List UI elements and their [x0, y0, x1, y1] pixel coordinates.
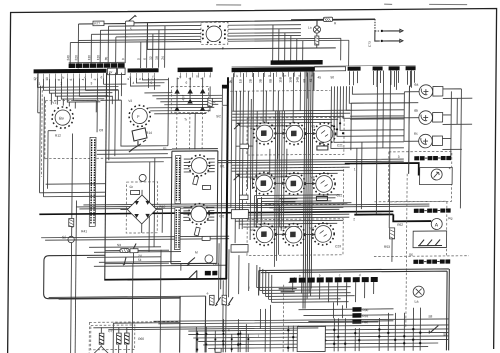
wire horiz runs upper-mid [39, 184, 105, 197]
motor switch arrow v1 [215, 297, 221, 306]
small resistors right of tubes [193, 176, 199, 185]
svg-text:3: 3 [200, 77, 204, 79]
wire drops mid [141, 26, 165, 68]
svg-text:2: 2 [353, 217, 355, 221]
resistor vertical mid [208, 98, 213, 106]
thick wire y279 [104, 279, 227, 280]
svg-text:f: f [153, 75, 154, 79]
tube V9 [206, 26, 222, 42]
svg-text:1: 1 [38, 82, 40, 86]
tube M5 [283, 173, 305, 195]
svg-text:Bv: Bv [59, 116, 64, 121]
svg-text:12: 12 [149, 56, 153, 60]
bridge diodes [134, 201, 150, 218]
svg-text:C22: C22 [336, 193, 342, 197]
transformer T left small [132, 128, 147, 146]
svg-text:10: 10 [45, 77, 49, 81]
wire long horizontals mid [76, 202, 429, 209]
switch bottom right [429, 325, 438, 333]
svg-text:V1: V1 [52, 101, 56, 105]
svg-text:Rg: Rg [448, 216, 452, 220]
wire second vertical [75, 200, 76, 353]
wire bundle horiz above row1 [232, 110, 350, 126]
junction dots [222, 328, 422, 350]
svg-text:V7: V7 [281, 175, 285, 179]
svg-text:La: La [308, 26, 312, 30]
bridge dashed box [126, 182, 157, 233]
svg-text:15B: 15B [278, 77, 282, 83]
bar under-labels [37, 74, 313, 80]
switch S5 box [125, 21, 134, 26]
svg-text:14B: 14B [295, 77, 299, 83]
cap boxes left row1 [240, 144, 249, 149]
motor switch arrow v2 [228, 297, 234, 306]
svg-text:d: d [101, 75, 103, 79]
svg-text:5k: 5k [138, 258, 142, 262]
terminal bar lower 3 [178, 67, 213, 72]
svg-text:R40: R40 [159, 205, 165, 209]
chained terminal row 3 [413, 259, 450, 264]
wire vertical x134 [132, 253, 134, 264]
svg-text:C73: C73 [368, 41, 372, 47]
wire run y263 [105, 262, 169, 265]
svg-text:4: 4 [81, 78, 85, 80]
svg-text:2: 2 [93, 78, 97, 80]
stubs under blocks [349, 71, 414, 88]
jack 2 [419, 111, 433, 125]
motor resistor v1 [210, 295, 215, 305]
terminal bar lower 2 [128, 68, 159, 72]
svg-text:6: 6 [185, 81, 187, 85]
svg-text:S9: S9 [443, 332, 447, 336]
svg-text:m: m [269, 74, 272, 78]
wire long pair y161 [218, 159, 404, 163]
wire right verticals [376, 70, 412, 262]
wire nest to tube B from bars [130, 78, 168, 90]
svg-text:6b: 6b [414, 109, 418, 113]
svg-text:Si2: Si2 [216, 114, 221, 118]
big tube 1 pin wires [184, 159, 215, 172]
wires jacks to tubes [350, 92, 404, 142]
chained terminal row 2 [414, 208, 451, 213]
svg-text:V2: V2 [128, 99, 132, 103]
rotary switch S2 [129, 140, 146, 152]
svg-text:V8: V8 [311, 176, 315, 180]
top-left wire labels [66, 54, 165, 60]
svg-text:b: b [63, 76, 65, 80]
svg-text:6: 6 [143, 58, 147, 60]
resistor bl 2 [117, 333, 122, 344]
arrows tube7-8 [274, 233, 315, 236]
wire lamp-resistor [147, 19, 375, 49]
svg-text:6B: 6B [302, 79, 306, 83]
svg-text:19B: 19B [288, 77, 292, 83]
tube B pin ring [129, 105, 150, 126]
switch on 279 [189, 270, 197, 278]
svg-text:50: 50 [330, 75, 334, 79]
vertical bundle x275 [274, 111, 284, 267]
pot under row1 [317, 143, 328, 150]
svg-text:d: d [359, 273, 361, 277]
big tube 1 pin ring [189, 155, 210, 176]
nested corners to jacks [331, 86, 419, 149]
wire mid horizontals y150-162 [97, 150, 172, 163]
svg-text:Gl2: Gl2 [219, 214, 224, 218]
svg-text:Gr: Gr [130, 185, 135, 189]
svg-text:V11: V11 [309, 227, 315, 231]
jack 2 rect [433, 112, 443, 122]
svg-text:18: 18 [155, 56, 159, 60]
svg-text:f: f [249, 286, 250, 290]
lever on y263 [123, 258, 126, 266]
label strip vertical (rotated text block) [89, 137, 96, 226]
wire bundle above row2 [232, 164, 350, 177]
jack 3 [419, 134, 433, 148]
svg-text:V10: V10 [280, 226, 286, 230]
label strip vertical power 2 [175, 208, 181, 250]
svg-text:R: R [334, 21, 337, 25]
label box right of bus 1 [231, 210, 248, 219]
big tube 1 [191, 158, 207, 174]
svg-text:R14: R14 [146, 131, 152, 135]
svg-text:R30: R30 [362, 308, 368, 312]
switch arrow bottom power [187, 257, 195, 265]
wire mid verticals down [132, 250, 181, 353]
grid verticals [196, 308, 420, 353]
svg-text:Si: Si [62, 235, 66, 240]
meter circle top of bridge [139, 174, 146, 181]
terminal strip outline white [315, 67, 346, 71]
tube M1 [253, 122, 275, 144]
wire nest under chained row [292, 282, 373, 319]
dashed box row3 [247, 219, 343, 256]
svg-text:R32: R32 [362, 320, 368, 324]
terminal bar upper A [69, 63, 125, 68]
bottom-left dashed box [89, 322, 179, 353]
resistor above bridge [131, 190, 140, 194]
dashed box meter [388, 151, 451, 202]
tube M6 [313, 173, 335, 195]
resistor bl 3 [125, 333, 130, 344]
dashed box row1 [247, 117, 344, 155]
svg-text:La: La [415, 300, 419, 304]
wire diode tops [177, 77, 203, 149]
wire meter step [393, 214, 431, 221]
dashed horiz right [374, 201, 469, 256]
junction dots nest [333, 122, 344, 134]
terminal block a [348, 67, 361, 71]
jack 3 wires [404, 98, 462, 149]
svg-text:4: 4 [449, 166, 451, 170]
resistor R79 [323, 17, 332, 21]
big tube 2 pin ring [188, 203, 209, 224]
svg-text:40V: 40V [181, 94, 185, 101]
svg-text:R60: R60 [138, 337, 144, 341]
wire nest right of tube B to power [144, 92, 226, 114]
motor cap circle [205, 255, 213, 263]
svg-text:24: 24 [161, 56, 165, 60]
diode drop dashed wires [177, 112, 203, 149]
jack 3 rect [432, 136, 442, 146]
tube V9 pins [202, 25, 226, 43]
svg-text:R31: R31 [362, 314, 368, 318]
pot under row2 [279, 196, 327, 201]
tube A [55, 110, 70, 125]
label strip vertical power 1 [175, 156, 181, 204]
svg-text:R41: R41 [81, 229, 87, 233]
svg-text:e: e [207, 291, 209, 295]
wire nest from bar1 to tube area [37, 78, 118, 102]
svg-text:8B: 8B [268, 79, 272, 83]
nest horizontals to resistor stack [257, 264, 355, 302]
terminal block c [389, 66, 400, 70]
svg-text:V9: V9 [250, 228, 254, 232]
junction verticals left cluster [197, 319, 248, 352]
dashed vertical x41.8 [40, 86, 43, 177]
motor resistor v2 [222, 295, 227, 305]
stacked resistor boxes right [352, 307, 361, 312]
resistor R small h [120, 249, 129, 253]
svg-text:S3: S3 [117, 243, 121, 247]
svg-text:0: 0 [121, 58, 125, 60]
wire resistor drop [71, 134, 73, 353]
wire drops deep left [73, 78, 103, 132]
tube M3 [313, 123, 335, 145]
wire verticals x150-155 [149, 158, 155, 252]
svg-text:a: a [126, 78, 130, 80]
arrow tube1-tube2 [274, 132, 316, 135]
wire verticals extra mid [235, 91, 287, 243]
dashed verticals right [406, 173, 447, 327]
svg-text:b: b [138, 78, 142, 80]
bar4 labels [228, 77, 313, 83]
wire bundle horizontals [70, 25, 201, 42]
svg-text:V6: V6 [250, 177, 254, 181]
svg-text:1: 1 [354, 167, 356, 171]
wire drops left staircase [70, 24, 125, 69]
wire nest bar1 to tube B [73, 84, 126, 112]
fuse circle Si [68, 236, 74, 242]
svg-text:0: 0 [137, 58, 141, 60]
bridge diamond [127, 195, 156, 224]
svg-text:n: n [285, 74, 287, 78]
arrow into row2 [234, 174, 240, 180]
svg-text:4B: 4B [309, 79, 313, 83]
svg-text:240: 240 [66, 55, 70, 61]
bottom-left resistor dashed box [91, 325, 135, 350]
jack 1 wires [403, 89, 472, 209]
svg-text:9k: 9k [228, 79, 232, 83]
svg-text:R77: R77 [94, 22, 100, 26]
wire left mesh mid [37, 86, 56, 197]
resistor bl 1 [99, 333, 104, 344]
svg-text:S1: S1 [163, 147, 167, 151]
svg-text:S6: S6 [409, 253, 413, 257]
svg-text:C23: C23 [335, 244, 341, 248]
wire nest between row2 and row3 [254, 195, 347, 227]
svg-text:Gl1: Gl1 [220, 164, 225, 168]
fuse box [222, 85, 229, 89]
svg-text:2: 2 [60, 82, 62, 86]
jack 1 rect [433, 86, 443, 96]
dashed box row2 [246, 167, 343, 205]
tube row2 [253, 172, 335, 196]
bar B separators [278, 60, 313, 65]
tube row1 [253, 122, 335, 146]
chained black row long [290, 277, 378, 283]
svg-text:1B: 1B [238, 79, 242, 83]
wire run y250 [105, 249, 169, 252]
dashed horizontal y92 [230, 89, 330, 92]
bus companion lines [221, 77, 232, 289]
wire horizontals at 236 [41, 236, 229, 240]
selenium diode row 2 [174, 98, 205, 111]
dashdot vertical x285 [282, 285, 285, 352]
chained terminal row 1 [414, 156, 451, 161]
wire horizontals y247-266 [87, 246, 227, 266]
bar1 tick labels [33, 76, 204, 81]
svg-text:a: a [299, 274, 301, 278]
svg-text:45: 45 [317, 75, 321, 79]
resistor vertical R80 [315, 36, 319, 45]
rectifier dashed box [171, 86, 208, 112]
lamp circle bottom [413, 286, 424, 297]
scattered tiny labels [36, 78, 454, 341]
tube A dashed box [45, 100, 113, 159]
svg-text:2B: 2B [248, 79, 252, 83]
bar1 end label cells [108, 68, 117, 75]
box top bottom-left [113, 323, 179, 353]
capacitor stub 2 [375, 31, 380, 41]
wire vertical main x106 [105, 73, 107, 280]
svg-text:5: 5 [150, 81, 152, 85]
verticals right of nest [356, 142, 362, 214]
svg-text:V5: V5 [311, 125, 315, 129]
wire verticals under bar4 [232, 73, 314, 230]
jack 2 wires [404, 91, 473, 159]
meter circle [431, 169, 442, 180]
nested corners left into box [218, 243, 271, 337]
svg-text:85: 85 [104, 56, 108, 60]
svg-text:C21: C21 [337, 143, 343, 147]
grid horizontals [188, 329, 448, 349]
tube A pin ring [52, 107, 73, 128]
bar row top hairline [232, 65, 416, 67]
resistor R left vertical [69, 218, 74, 226]
terminal block d [406, 66, 416, 70]
svg-text:12: 12 [33, 77, 37, 81]
white box bottom [297, 326, 325, 351]
svg-text:R52: R52 [397, 223, 403, 227]
main vertical bus x227 [226, 77, 228, 279]
terminal bar lower 4 [232, 67, 315, 72]
meter A circle [431, 218, 442, 229]
svg-text:R53: R53 [384, 245, 390, 249]
wire thick mid line [39, 211, 393, 214]
switches in box [418, 239, 442, 245]
jack 1 [419, 85, 433, 99]
wire nest above tube A [51, 93, 75, 109]
svg-text:M: M [195, 250, 198, 254]
bus thin continuation [223, 279, 227, 352]
svg-text:8: 8 [57, 79, 61, 81]
wire pair y297 [49, 296, 206, 299]
thick wire y165 to meter1 [345, 163, 432, 175]
svg-text:6a: 6a [414, 83, 418, 87]
big tube 2 [191, 206, 207, 222]
tube M9 [312, 223, 334, 245]
tube M4 [253, 172, 275, 194]
bar A separators [76, 63, 118, 68]
svg-text:220: 220 [74, 55, 78, 61]
svg-text:Tr: Tr [184, 118, 188, 122]
svg-text:V4: V4 [281, 124, 285, 128]
arrow into row1 [234, 123, 240, 129]
big tube 2 pin wires [183, 207, 214, 220]
wire bridge connections [120, 190, 162, 233]
junction dots left cluster [196, 333, 249, 351]
wire long top to right [134, 20, 375, 50]
svg-text:R12: R12 [55, 134, 61, 138]
tube M2 [283, 123, 305, 145]
right box outline [351, 86, 410, 174]
wire bundle right of tube [227, 24, 349, 41]
tube V9 dashed box [201, 22, 228, 44]
label box right of bus 2 [231, 245, 248, 253]
svg-text:b: b [319, 273, 321, 277]
resistor boxes on 279 [205, 271, 211, 276]
tube M8 [283, 224, 305, 246]
svg-text:V3: V3 [250, 127, 254, 131]
arrows tube4-5 [274, 182, 316, 185]
svg-text:3: 3 [90, 81, 92, 85]
terminal tick labels row [38, 72, 313, 79]
tube row3 [254, 223, 335, 246]
wire verticals x109-121 [109, 73, 122, 161]
svg-text:3: 3 [398, 155, 400, 159]
svg-text:k: k [237, 74, 239, 78]
svg-text:C60: C60 [213, 262, 219, 266]
svg-text:4: 4 [132, 81, 134, 85]
wire bl connections [101, 327, 127, 353]
svg-text:6c: 6c [414, 132, 418, 136]
svg-text:C8: C8 [99, 128, 103, 132]
svg-text:120: 120 [96, 55, 100, 61]
svg-text:6: 6 [69, 79, 73, 81]
meter box inner [420, 167, 453, 184]
tube B [132, 108, 147, 123]
scan top specks [216, 3, 467, 7]
switch box on y250 [130, 249, 138, 253]
capacitor stub 1 [375, 19, 380, 31]
terminal bar upper B [271, 60, 323, 65]
svg-text:130: 130 [87, 55, 91, 61]
svg-text:c: c [339, 273, 341, 277]
wire rounded big loop [44, 255, 181, 299]
wire top run [78, 23, 125, 25]
box under meter [413, 231, 447, 248]
resistor R77 [93, 21, 104, 26]
svg-text:3B: 3B [258, 79, 262, 83]
wire left border drop [37, 73, 39, 113]
terminal block b [373, 66, 383, 70]
labels under white strip [317, 75, 334, 79]
tube M7 [254, 223, 276, 245]
switch under row3 [279, 278, 297, 292]
wire bundle above row3 [231, 214, 349, 227]
svg-text:S8: S8 [428, 315, 432, 319]
svg-text:C71: C71 [108, 329, 114, 333]
